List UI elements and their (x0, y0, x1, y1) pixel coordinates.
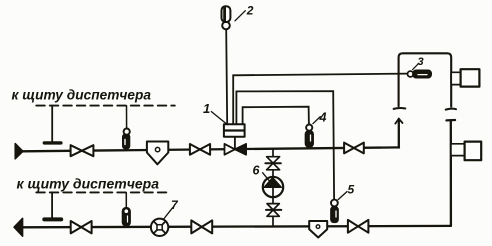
valve return gate valve 1 (71, 221, 92, 233)
valve return gate valve 2 (191, 220, 212, 233)
component radiator connection (room) (451, 69, 479, 86)
wire supply pipe (main line) (23, 147, 399, 151)
wire return pipe (main line) (22, 226, 451, 227)
wire signal line to room sensor 3 (233, 74, 407, 125)
node label 1 (203, 101, 227, 125)
sensor thermometer in supply pipe (123, 106, 130, 149)
node pressure tap (supply, to dispatcher panel) (44, 106, 61, 143)
wire bypass branch middle lower (272, 197, 274, 204)
sensor room temperature sensor 3 (408, 70, 432, 78)
node label 7 (164, 198, 179, 219)
svg-text:1: 1 (203, 101, 210, 116)
wire dashed signal line to dispatcher panel (supply) (36, 105, 175, 107)
valve bypass upper valve (265, 157, 280, 170)
svg-text:6: 6 (253, 164, 261, 178)
valve supply gate valve 3 (344, 143, 364, 154)
sensor pressure sensor 2 (222, 6, 231, 29)
valve supply gate valve 1 (71, 145, 94, 156)
svg-text:к щиту диспетчера: к щиту диспетчера (12, 87, 152, 103)
node inlet arrow (15, 144, 23, 159)
valve supply gate valve 2 (190, 144, 210, 155)
sensor thermometer in return pipe (123, 193, 130, 226)
node pipe break bar (left wall end) (394, 107, 406, 110)
wire return riser from heating system (450, 121, 452, 226)
svg-text:5: 5 (348, 183, 355, 197)
component elevator pump 6 (263, 177, 283, 197)
component radiator connection (return riser) (451, 142, 481, 161)
node flow mark (return riser break) (446, 119, 455, 122)
node heated room (box with sensor 3) (399, 53, 452, 106)
op-amp regulator valve U1 (control valve with actuator) (224, 124, 246, 154)
component mud filter (return) (309, 221, 327, 238)
component water meter 7 (151, 219, 168, 236)
node pressure tap (return, to dispatcher panel) (44, 193, 61, 220)
valve return gate valve 3 (348, 220, 369, 233)
valve bypass lower valve (266, 204, 281, 217)
svg-text:3: 3 (418, 56, 424, 68)
svg-text:к щиту диспетчера: к щиту диспетчера (17, 176, 160, 192)
node flow arrow up (supply riser break) (395, 119, 402, 124)
wire signal line to supply sensor 4 (243, 107, 309, 125)
wire impulse line to sensor 2 (226, 29, 227, 124)
wire bypass branch middle upper (272, 170, 274, 177)
component mud filter (supply) (147, 142, 168, 165)
sensor temperature sensor 5 (return) (331, 200, 338, 223)
node label 4 (313, 111, 327, 125)
node label 3 (413, 56, 424, 70)
node label 2 (235, 3, 254, 21)
node pipe break bar (right wall end) (446, 108, 456, 111)
wire bypass branch lower (272, 216, 274, 226)
node outlet arrow (14, 218, 23, 236)
wire signal line to return sensor 5 (236, 91, 334, 199)
wire dashed signal line to dispatcher panel (return) (36, 191, 170, 193)
sensor temperature sensor 4 (supply) (305, 125, 313, 147)
wire bypass branch upper (272, 149, 274, 157)
svg-text:2: 2 (246, 3, 254, 17)
wire supply riser to heating system (398, 119, 400, 147)
node label 5 (338, 183, 354, 200)
node label 6 (253, 164, 270, 181)
